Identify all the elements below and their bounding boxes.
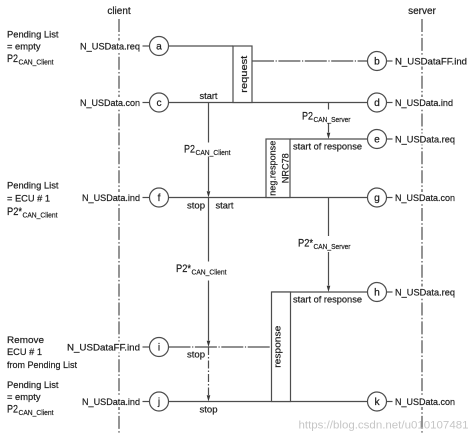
node b: [368, 52, 470, 71]
svg-text:N_USData.ind: N_USData.ind: [395, 98, 453, 109]
label start of response (row e): [293, 142, 362, 153]
wire i to response box (dash-dot): [169, 346, 272, 348]
svg-text:= ECU # 1: = ECU # 1: [7, 194, 50, 205]
node i: [64, 338, 169, 357]
svg-text:request: request: [239, 55, 250, 92]
label P2*_CAN_Server (timer): [297, 236, 352, 252]
node e: [368, 130, 458, 149]
node j: [79, 392, 169, 411]
svg-text:c: c: [156, 98, 161, 109]
lifeline client: [118, 19, 120, 433]
svg-text:stop: stop: [200, 405, 218, 416]
wire f to g: [169, 197, 368, 199]
svg-text:a: a: [156, 42, 162, 53]
box neg.response NRC78: [266, 139, 292, 198]
svg-text:CAN_Server: CAN_Server: [314, 242, 351, 251]
timer P2*_CAN_Server (g to h): [327, 198, 331, 293]
svg-text:CAN_Server: CAN_Server: [314, 115, 351, 124]
svg-text:h: h: [374, 288, 380, 299]
svg-text:stop: stop: [187, 201, 205, 212]
svg-text:start of response: start of response: [293, 295, 362, 306]
svg-text:CAN_Client: CAN_Client: [23, 211, 59, 220]
wire response box to h: [272, 291, 368, 293]
node k: [368, 392, 458, 411]
svg-text:N_USData.req: N_USData.req: [80, 41, 140, 52]
svg-text:N_USData.con: N_USData.con: [395, 397, 455, 408]
svg-text:response: response: [273, 326, 284, 368]
wire c to d: [169, 102, 368, 104]
note pending list empty (top): [7, 30, 59, 67]
svg-text:= empty: = empty: [7, 42, 41, 53]
svg-text:N_USData.con: N_USData.con: [395, 193, 455, 204]
label stop (timer at i): [187, 350, 205, 361]
svg-text:i: i: [158, 343, 160, 354]
label stop (timer at j): [200, 405, 218, 416]
label P2*_CAN_Client (timer): [175, 262, 238, 281]
svg-text:b: b: [374, 57, 380, 68]
box request: [233, 46, 252, 103]
svg-text:CAN_Client: CAN_Client: [19, 58, 55, 67]
svg-text:P2: P2: [7, 404, 18, 416]
svg-text:P2: P2: [302, 111, 313, 123]
lifeline server: [421, 19, 423, 433]
svg-text:CAN_Client: CAN_Client: [192, 268, 228, 277]
svg-text:ECU # 1: ECU # 1: [7, 347, 42, 358]
svg-text:Pending List: Pending List: [7, 181, 59, 192]
svg-text:P2: P2: [7, 53, 18, 65]
svg-text:P2*: P2*: [176, 263, 192, 275]
svg-text:client: client: [107, 6, 131, 17]
label stop | start (timer at f): [187, 201, 234, 212]
watermark: [299, 420, 469, 432]
wire request box to b (dash-dot): [252, 60, 368, 62]
svg-text:P2*: P2*: [298, 238, 314, 250]
timer P2_CAN_Server (d to e): [327, 103, 331, 140]
svg-text:d: d: [374, 98, 380, 109]
svg-text:P2*: P2*: [7, 206, 23, 218]
svg-text:start of response: start of response: [293, 142, 362, 153]
label start (timer P2_CAN_Client at c): [200, 91, 218, 102]
timer P2*_CAN_Client (f to i): [207, 198, 211, 348]
node g: [368, 188, 458, 207]
svg-text:neg.response: neg.response: [268, 141, 279, 196]
label P2_CAN_Client (timer): [183, 143, 233, 158]
note pending list empty (bottom): [7, 380, 59, 417]
svg-text:N_USData.req: N_USData.req: [395, 287, 455, 298]
svg-text:j: j: [157, 397, 160, 408]
node d: [368, 93, 456, 112]
note remove ECU 1: [7, 335, 77, 371]
svg-text:e: e: [374, 135, 380, 146]
svg-text:CAN_Client: CAN_Client: [19, 408, 55, 417]
svg-text:https://blog.csdn.net/u0101074: https://blog.csdn.net/u010107481: [299, 420, 469, 432]
svg-text:g: g: [374, 193, 380, 204]
wire a to request box: [169, 45, 234, 47]
label P2_CAN_Server (timer): [301, 110, 352, 125]
svg-text:server: server: [408, 6, 436, 17]
node c: [77, 93, 169, 112]
svg-text:start: start: [200, 91, 218, 102]
note pending list ECU 1: [7, 181, 59, 220]
wire neg.response box to e: [290, 138, 368, 140]
wire j to k: [169, 401, 368, 403]
timer P2_CAN_Client (c to f): [207, 103, 211, 198]
svg-text:N_USData.req: N_USData.req: [395, 134, 455, 145]
timer continuation i to j (dash-dot): [207, 347, 211, 402]
svg-text:from Pending List: from Pending List: [7, 360, 77, 371]
svg-text:CAN_Client: CAN_Client: [196, 148, 232, 157]
svg-text:NRC78: NRC78: [281, 153, 292, 183]
svg-text:N_USData.con: N_USData.con: [80, 98, 140, 109]
lifeline label server: [408, 6, 436, 17]
svg-text:N_USData.ind: N_USData.ind: [82, 193, 140, 204]
svg-text:N_USData.ind: N_USData.ind: [82, 397, 140, 408]
svg-text:= empty: = empty: [7, 392, 41, 403]
svg-text:Pending List: Pending List: [7, 380, 59, 391]
svg-text:N_USDataFF.ind: N_USDataFF.ind: [67, 342, 140, 353]
node a: [77, 37, 169, 56]
svg-text:f: f: [158, 193, 161, 204]
svg-text:start: start: [216, 201, 234, 212]
svg-text:Pending List: Pending List: [7, 30, 59, 41]
box response: [272, 292, 291, 402]
node f: [79, 188, 169, 207]
lifeline label client: [107, 6, 131, 17]
svg-text:N_USDataFF.ind: N_USDataFF.ind: [395, 56, 467, 67]
svg-text:Remove: Remove: [7, 335, 44, 346]
label start of response (row h): [293, 295, 362, 306]
svg-text:stop: stop: [187, 350, 205, 361]
node h: [368, 283, 458, 302]
svg-text:P2: P2: [184, 144, 195, 156]
